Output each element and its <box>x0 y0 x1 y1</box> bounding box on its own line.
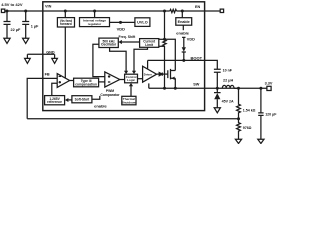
diode catch schottky <box>214 88 221 107</box>
node dot sense on SW <box>163 87 166 90</box>
svg-text:VIN: VIN <box>45 5 52 9</box>
GND rail wire <box>27 53 54 55</box>
wire VIN sense drop <box>164 11 166 40</box>
wire sense to gate node <box>164 46 166 88</box>
node dot FB tap <box>237 117 240 120</box>
node dot VDD <box>119 21 122 24</box>
arrowhead thermal into logic <box>129 83 133 86</box>
block control logic <box>125 74 138 83</box>
node dot regulator <box>93 10 96 13</box>
wire clock route osc to control logic <box>110 48 127 72</box>
svg-text:976Ω: 976Ω <box>243 126 252 130</box>
wire BOOT rail <box>148 59 205 61</box>
wire VDD net <box>110 21 135 23</box>
wire comparator out <box>120 79 125 81</box>
arrowhead current limit into control logic <box>132 71 136 74</box>
node dot input cap 2 <box>24 10 27 13</box>
inductor L1 <box>234 87 239 89</box>
wire gnd left stem <box>26 54 28 58</box>
svg-text:45V 2A: 45V 2A <box>222 100 234 104</box>
wire boot driver drop <box>147 60 149 68</box>
svg-text:22 µH: 22 µH <box>223 78 233 82</box>
node dot sense branch <box>163 10 166 13</box>
block current limit <box>140 39 159 48</box>
diode gate clamp <box>159 73 162 76</box>
op-amp error amplifier <box>57 74 69 88</box>
resistor EN pull-up <box>170 9 177 12</box>
wire reference riser <box>52 83 57 95</box>
svg-text:3.3V: 3.3V <box>265 82 273 86</box>
IC block outline <box>43 2 205 111</box>
wire current limit bottom tap <box>159 45 165 47</box>
capacitor output 120uF <box>258 88 263 139</box>
ground left <box>25 58 31 63</box>
block Enable <box>176 18 192 26</box>
svg-text:Enable: Enable <box>178 20 190 24</box>
node dot out cap on SW <box>259 87 262 90</box>
block thermal shutdown <box>122 96 136 105</box>
svg-text:Soft-Start: Soft-Start <box>75 98 90 102</box>
ground C1 <box>4 38 10 43</box>
wire freq shift <box>122 41 140 43</box>
svg-text:1.54 kΩ: 1.54 kΩ <box>243 109 256 113</box>
wire current limit to control logic <box>134 47 148 71</box>
svg-text:VDD: VDD <box>117 26 126 31</box>
svg-text:120 µF: 120 µF <box>265 112 277 116</box>
ground output cap <box>258 139 264 143</box>
svg-text:PWMComparator: PWMComparator <box>100 89 120 97</box>
wire gnd right stem <box>54 54 56 58</box>
svg-text:UVLO: UVLO <box>137 21 148 25</box>
wire enable stub <box>182 25 184 30</box>
block 500 kHz oscillator <box>99 38 118 47</box>
wire gate <box>157 73 168 75</box>
node dot feedforward <box>64 10 67 13</box>
wire error amp out <box>70 80 74 82</box>
wire SW rail <box>149 87 267 89</box>
minus sign error amp <box>59 75 61 77</box>
arrowhead source <box>171 77 174 80</box>
minus sign comparator <box>108 81 110 83</box>
wire current limit top tap <box>159 38 165 40</box>
svg-text:500 kHzOscillator: 500 kHzOscillator <box>101 39 117 46</box>
resistor R2 976 <box>237 119 241 140</box>
wire soft-start to reference <box>68 99 72 101</box>
ground diode <box>214 108 220 113</box>
svg-text:22 µF: 22 µF <box>11 28 21 32</box>
EN pin terminal <box>220 9 223 12</box>
arrowhead into reference <box>65 98 69 102</box>
wire enable drop <box>181 11 183 18</box>
node dot EN branch <box>181 10 184 13</box>
wire to EN pin <box>177 10 221 12</box>
block soft-start <box>72 96 92 103</box>
svg-text:FB: FB <box>45 72 50 76</box>
node dot sense top <box>163 38 166 41</box>
block UVLO <box>135 18 150 27</box>
block internal voltage regulator <box>80 18 110 27</box>
svg-text:Freq. Shift: Freq. Shift <box>119 35 137 39</box>
resistor R1 1.54k <box>237 88 241 118</box>
svg-text:ThermalShutdown: ThermalShutdown <box>121 97 136 104</box>
node dot divider on SW <box>237 87 240 90</box>
wire feedforward drop <box>64 11 66 18</box>
output terminal 3.3V <box>267 86 271 90</box>
svg-text:VDD: VDD <box>187 37 195 41</box>
ground divider <box>235 139 241 143</box>
svg-text:GND: GND <box>46 50 55 54</box>
capacitor C1 22uF <box>4 11 11 38</box>
wire FB route bottom <box>27 118 238 120</box>
wire feedforward to error amp <box>64 27 66 78</box>
wire regulator drop <box>94 11 96 18</box>
plus sign comparator <box>108 75 110 77</box>
svg-text:1 µF: 1 µF <box>31 24 39 28</box>
wire thermal to logic <box>130 86 132 96</box>
svg-text:ControlLogic: ControlLogic <box>126 75 137 82</box>
capacitor C2 1uF <box>22 11 29 38</box>
svg-text:SW: SW <box>193 82 200 86</box>
svg-text:4.5V to 42V: 4.5V to 42V <box>1 2 23 7</box>
input terminal <box>1 9 4 12</box>
svg-text:BOOT: BOOT <box>191 56 203 61</box>
wire boot cap <box>205 60 221 88</box>
wire VIN top rail <box>5 10 170 12</box>
transistor high-side NMOS <box>168 69 176 88</box>
resistor sense <box>163 40 166 46</box>
diode boot <box>182 47 186 52</box>
arrowhead freq shift <box>118 40 122 44</box>
wire VDD rail to drain <box>165 39 176 70</box>
wire soft-start enable stub <box>92 96 100 99</box>
node dot source on SW <box>174 87 177 90</box>
arrowhead clock into control logic <box>124 71 128 74</box>
VDD boot stub <box>182 37 185 47</box>
block type III compensation <box>74 78 99 87</box>
svg-text:enable: enable <box>176 30 189 35</box>
wire logic to driver <box>138 78 143 80</box>
block Vin feed forward <box>57 18 74 27</box>
svg-text:enable: enable <box>94 104 107 109</box>
wire comp to comparator <box>99 81 105 83</box>
node dot boot diode <box>182 59 185 62</box>
amp driver <box>143 66 157 82</box>
node dot boot/diode on SW <box>216 87 219 90</box>
svg-text:EN: EN <box>195 5 201 9</box>
plus sign error amp <box>59 81 61 83</box>
wire ramp route osc to comparator <box>93 44 105 76</box>
ground right <box>52 58 58 63</box>
block 1.265V reference <box>45 96 65 105</box>
op-amp PWM comparator <box>105 72 120 87</box>
svg-text:Driver: Driver <box>144 73 153 77</box>
svg-text:10 nF: 10 nF <box>223 69 233 73</box>
wire driver sw riser <box>148 83 150 88</box>
node dot input cap 1 <box>6 10 9 13</box>
svg-text:Vin feedforward: Vin feedforward <box>60 19 72 26</box>
ground C2 <box>23 38 29 43</box>
wire FB into error amp <box>27 78 57 118</box>
